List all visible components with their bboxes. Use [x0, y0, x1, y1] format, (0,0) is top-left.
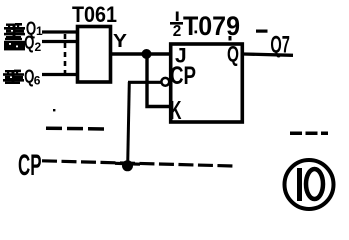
input label Q6 (CJK char + Q6)	[3, 67, 41, 88]
ellipsis dashed line (inputs Q3..Q5 omitted)	[64, 34, 67, 73]
junction dot node Y	[142, 49, 152, 59]
svg-text:6: 6	[34, 74, 41, 88]
svg-text:2: 2	[35, 40, 42, 54]
descender tail of 9 in T079	[229, 36, 232, 41]
input label Q2 (CJK char + Q2)	[4, 33, 42, 54]
svg-text:2: 2	[173, 23, 182, 40]
wire CP clock dashed line	[42, 161, 233, 166]
figure number 10 in circle	[285, 160, 334, 209]
wire Q1 input	[42, 30, 79, 33]
wire CP clock solid segment under junction	[115, 162, 140, 166]
input label Q1 (CJK char + Q1)	[4, 19, 43, 39]
wire Y to K input (drop)	[147, 54, 170, 107]
print dot artifact in T079	[195, 31, 198, 34]
svg-text:K: K	[170, 95, 182, 125]
svg-text:T061: T061	[72, 2, 117, 27]
svg-text:1: 1	[36, 24, 43, 38]
svg-text:Q: Q	[227, 42, 239, 67]
wire Y (gate output to J input)	[110, 52, 170, 55]
svg-text:CP: CP	[170, 62, 196, 90]
gate U1 T061 box	[78, 27, 111, 83]
junction dot on CP clock line	[122, 160, 133, 171]
inversion bubble on CP input	[161, 78, 169, 86]
label Q7 output with overbar	[256, 30, 290, 59]
dashed continuation line right	[290, 132, 328, 136]
wire Q output	[243, 54, 293, 55]
wire Q6 input	[42, 73, 79, 76]
wire Q2 input	[42, 40, 79, 43]
svg-text:Q: Q	[24, 33, 34, 53]
flip-flop U2 box	[171, 44, 243, 122]
svg-text:CP: CP	[18, 149, 42, 182]
wire CP drop to clock line	[128, 82, 130, 164]
wire CP input	[128, 81, 161, 84]
speck above left dashed line	[53, 109, 55, 111]
flip-flop U2 label 1/2	[170, 12, 183, 41]
dashed continuation line left	[46, 126, 108, 130]
svg-text:Y: Y	[113, 31, 127, 51]
svg-text:Q7: Q7	[270, 32, 290, 59]
